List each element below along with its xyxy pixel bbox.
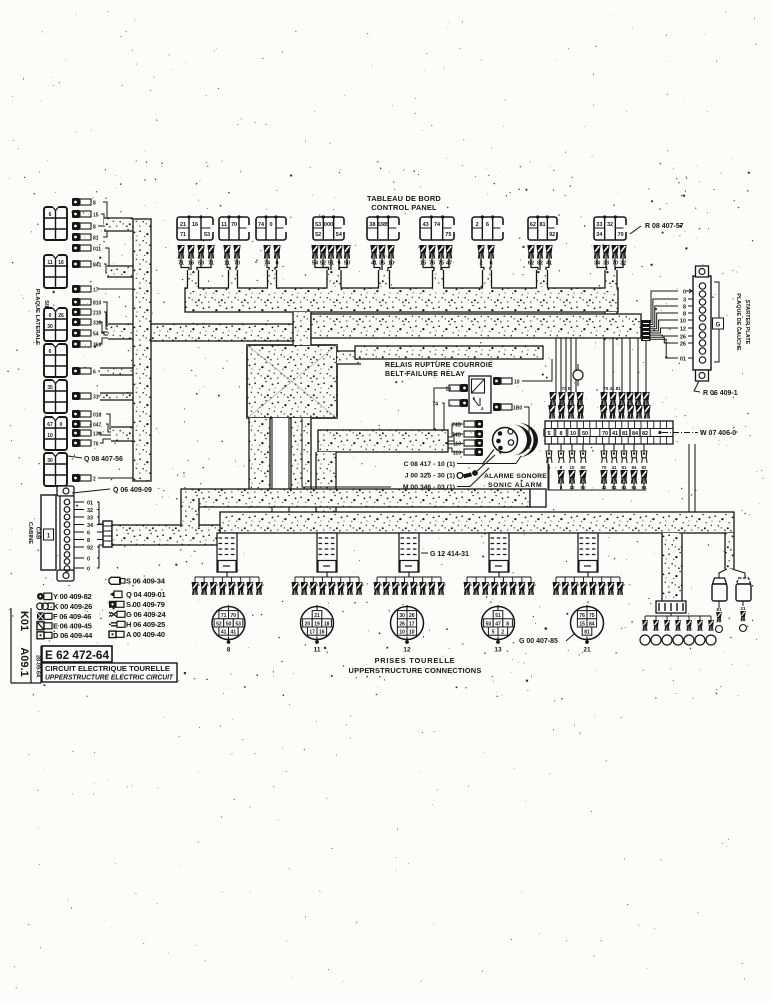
plug 018 (side plate) [72,410,102,419]
svg-text:81: 81 [716,607,722,612]
side plate connector block SB1 [44,206,67,240]
svg-text:01: 01 [680,356,686,362]
svg-text:82: 82 [642,431,648,437]
svg-text:8: 8 [93,225,96,231]
wire: plug 74 to bus F [442,403,444,430]
svg-text:PLAQUE DE GAUCHE: PLAQUE DE GAUCHE [735,293,741,351]
plug 011 (side plate) [72,244,101,253]
circular connector 12 [391,605,424,654]
svg-text:92: 92 [549,232,555,238]
wire: bus B drops to strip cluster 2 [604,338,646,392]
svg-text:3: 3 [683,297,686,303]
wire: plug 10 up to bus D [522,359,552,381]
svg-text:81: 81 [622,431,628,437]
svg-text:41: 41 [221,630,227,636]
svg-text:33: 33 [596,222,602,228]
wire: fan out of sleeve 8 [192,572,265,595]
svg-text:8: 8 [683,311,686,317]
plug 74 (relay) [432,399,468,408]
svg-text:70: 70 [601,465,607,470]
svg-text:A09.1: A09.1 [18,647,30,676]
svg-text:8: 8 [683,304,686,310]
svg-text:41: 41 [611,465,617,470]
svg-text:31: 31 [93,395,99,401]
svg-text:841: 841 [93,263,102,269]
svg-text:16: 16 [58,260,64,266]
label G 00 407-85 [519,634,574,645]
svg-text:5: 5 [547,431,550,437]
margin label K01 A09.1 [11,608,41,683]
svg-text:S 00 409-79: S 00 409-79 [126,600,165,609]
legend item E 06 409-45 [37,622,92,631]
svg-text:41: 41 [612,431,618,437]
wire: merge stub SB6 [111,427,133,441]
svg-text:26: 26 [680,341,686,347]
svg-text:81: 81 [539,222,545,228]
wire: merge stub SB2 [107,266,133,277]
svg-text:70: 70 [93,442,99,448]
svg-text:210: 210 [93,311,102,317]
wire: control panel bus A [185,288,618,312]
plug row: strip cluster 1 [548,386,584,419]
svg-text:Q 04 409-01: Q 04 409-01 [126,590,166,599]
svg-text:17: 17 [309,630,315,636]
plug 31 (side plate) [72,392,99,401]
svg-text:000: 000 [324,222,333,228]
svg-text:UPPERSTRUCTURE CONNECTIONS: UPPERSTRUCTURE CONNECTIONS [349,666,482,675]
svg-text:11: 11 [314,647,321,654]
svg-text:10: 10 [514,380,520,386]
svg-text:110: 110 [453,451,461,457]
svg-text:310: 310 [93,321,102,327]
wire: bus F alarm feed [318,430,448,452]
control panel connector group TB7 [472,215,506,273]
svg-text:92: 92 [87,546,93,552]
wire: stem of TB6 to control panel bus [433,270,444,289]
svg-text:110: 110 [453,442,461,448]
svg-text:S 06 409-34: S 06 409-34 [126,577,166,586]
svg-text:8385: 8385 [377,222,389,228]
svg-text:34: 34 [87,523,94,529]
title block E 62 472-64 [42,646,177,682]
svg-text:17: 17 [93,288,99,294]
side plate connector block SB7 [44,452,67,486]
svg-text:018: 018 [93,413,102,419]
wire: bus A drop to junction box [293,312,311,345]
svg-text:PRISES TOURELLE: PRISES TOURELLE [375,656,456,665]
wire: link bus E to cab bus [181,498,199,527]
legend item H 06 409-25 [109,620,165,629]
svg-text:W 07 406-0: W 07 406-0 [700,430,736,437]
svg-text:6: 6 [486,222,489,228]
svg-text:70: 70 [231,222,237,228]
svg-text:28-09-64: 28-09-64 [35,655,41,678]
svg-text:0: 0 [49,313,52,319]
wire: cab harness bus [112,525,232,545]
wire: SB3 plug cluster to bus C [98,302,133,344]
svg-text:34: 34 [596,232,603,238]
svg-text:50: 50 [582,431,588,437]
wire: bus C riser to junction box [151,324,294,341]
svg-text:6: 6 [49,349,52,355]
svg-text:11: 11 [47,260,53,266]
svg-text:26: 26 [58,313,64,319]
svg-text:38: 38 [369,222,375,228]
svg-text:12: 12 [680,326,686,332]
wire: bus B to starter plate [311,314,641,338]
label C 08 417-10 [404,456,521,468]
legend item Q 04 409-01 [110,590,166,599]
svg-text:10: 10 [409,630,415,636]
svg-text:R 06 409-1: R 06 409-1 [703,390,738,397]
plug B1 (bullet connector) [712,578,727,633]
svg-text:72 8: 72 8 [562,386,571,391]
wire: split to plugs B1/B2 [719,569,745,578]
svg-text:E 06 409-45: E 06 409-45 [53,622,92,631]
svg-text:CAB: CAB [35,527,41,540]
wire: riser to connector block 6 [662,533,682,601]
caption: tableau de bord / control panel [367,194,441,212]
wire: bus B drops to strip cluster 1 [556,338,576,392]
svg-text:52: 52 [315,232,321,238]
svg-text:8: 8 [93,201,96,207]
svg-text:8: 8 [87,538,90,544]
wire: riser box-2 [291,418,311,505]
wire: fan out of sleeve 12 [374,572,447,595]
wire: plug 110 to bus F region [524,407,529,449]
svg-text:D 06 409-44: D 06 409-44 [53,631,93,640]
svg-text:33: 33 [87,516,93,522]
svg-text:C 08 417 - 10 (1): C 08 417 - 10 (1) [404,461,455,468]
svg-text:74: 74 [432,402,438,408]
plug 841 (side plate) [72,260,102,269]
wire: stub plug 6 [100,368,133,375]
wire: fan out of sleeve 13 [464,572,537,595]
plug 19 (relay) [445,384,468,393]
svg-text:16: 16 [192,222,198,228]
plug row: strip cluster 2 [600,386,651,419]
wire: SB2 plug cluster to riser [98,248,133,289]
wire: stem of TB3 to control panel bus [268,270,277,289]
svg-text:STARTER PLATE: STARTER PLATE [744,300,750,345]
svg-text:K01: K01 [18,611,30,631]
svg-text:047: 047 [93,423,102,429]
svg-text:6: 6 [87,531,90,537]
svg-text:01: 01 [87,501,93,507]
circular connector 11 [301,605,334,654]
svg-text:810: 810 [93,301,102,307]
svg-text:16: 16 [319,630,325,636]
cable sleeve 11 [317,533,337,572]
wire: stem of TB9 to control panel bus [605,270,617,289]
wire: plug 2 to riser bottom [98,477,133,479]
cable sleeve 12 [399,533,419,572]
caption: alarme sonore / sonic alarm [484,473,547,489]
svg-text:74: 74 [434,222,441,228]
label R 08 407-57 [630,223,684,234]
svg-text:8: 8 [227,647,231,654]
svg-text:G 00 407-85: G 00 407-85 [519,638,558,645]
svg-text:UPPERSTRUCTURE ELECTRIC CIRCUI: UPPERSTRUCTURE ELECTRIC CIRCUIT [45,673,174,682]
svg-text:011: 011 [93,247,101,253]
wire: SB1 plug cluster to riser [98,202,133,237]
svg-text:70 41 81: 70 41 81 [603,386,621,391]
wire: cab connector pin fan [74,501,103,573]
connector block 6 [656,601,686,613]
svg-text:32: 32 [87,508,93,514]
side plate connector block SB5 [44,379,67,413]
wire: merge stub SB1 [104,218,133,231]
wire: stem of TB4 to control panel bus [327,270,341,289]
svg-text:43: 43 [423,222,429,228]
svg-text:2: 2 [93,477,96,483]
plug 310 (side plate) [72,318,102,327]
caption: relais rupture courroie / belt failure relay [385,362,493,378]
svg-text:H 06 409-25: H 06 409-25 [126,620,165,629]
circular connector 8 [212,605,245,654]
label G 12 414-31 [421,551,469,558]
label Q 06 409-09 [72,487,152,494]
plug 74B (alarm feed) [452,420,483,429]
side plate connector block SB4 [44,343,67,377]
caption: prises tourelle / upperstructure connections [349,656,482,675]
side plate connector block SB3 [44,307,67,341]
plug 130 (side plate) [72,429,102,438]
plug row under strip W (row 1) [546,444,647,470]
wire: bus F to alarm plugs [448,424,463,452]
svg-text:0: 0 [60,422,63,428]
wire: bus D step from junction box [337,351,361,364]
svg-text:53: 53 [315,222,321,228]
plug 047 (side plate) [72,420,102,429]
svg-text:74: 74 [258,222,265,228]
wire: stem of TB5 to control panel bus [379,270,390,289]
wire: bus D relay feed [355,346,543,359]
wire: stub plug 31 [100,393,133,400]
svg-text:62: 62 [530,222,536,228]
circular connector 21 [571,605,604,654]
side plate connector block SB6 [44,416,67,450]
plug 110 (relay) [493,403,522,412]
side plate connector block SB2 [44,254,67,288]
control panel connector group TB2 [219,215,252,273]
svg-text:67: 67 [47,422,53,428]
label R 06 409-1 [694,381,738,397]
wire: right tail of main bus [725,533,734,569]
caption: cabine / cab [27,522,41,544]
terminal strip W numbers [544,429,650,438]
svg-text:360: 360 [93,343,102,349]
legend item S 06 409-34 [109,577,166,586]
control panel connector group TB3 [256,215,289,273]
wire: strip W right drops to main bus [689,444,695,512]
svg-text:5: 5 [492,630,495,636]
svg-text:10: 10 [570,431,576,437]
plug 360 (side plate) [72,340,102,349]
wire: riser box-1 [249,418,270,508]
svg-text:10: 10 [399,630,405,636]
svg-text:41: 41 [231,630,237,636]
svg-text:50: 50 [580,465,586,470]
svg-text:K 00 409-26: K 00 409-26 [53,602,92,611]
svg-text:SONIC ALARM: SONIC ALARM [488,482,542,489]
svg-text:Y 00 409-82: Y 00 409-82 [53,592,92,601]
svg-text:G 06 409-24: G 06 409-24 [126,610,167,619]
svg-text:84: 84 [631,465,637,470]
svg-text:74B: 74B [452,433,462,439]
legend item A 00 409-40 [109,630,165,639]
svg-text:15: 15 [93,213,99,219]
wire: plug 6 to riser [98,370,133,372]
svg-text:PLAQUE LATERALE: PLAQUE LATERALE [34,289,40,345]
svg-text:26: 26 [680,334,686,340]
svg-text:21: 21 [583,647,591,654]
svg-text:2: 2 [476,222,479,228]
plug 210 (side plate) [72,308,102,317]
svg-text:130: 130 [93,432,102,438]
svg-text:ALARME SONORE: ALARME SONORE [484,473,547,480]
svg-text:53: 53 [204,232,210,238]
caption: starter plate (rotated) [735,293,750,351]
wire: stem of TB1 to control panel bus [188,270,199,289]
wire: bus B block fan to starter plate pins [650,289,693,362]
svg-text:82: 82 [641,465,647,470]
wire: fan out of sleeve 21 [553,572,626,595]
junction box (harness node) [247,345,337,418]
svg-text:6: 6 [49,212,52,218]
svg-text:RELAIS RUPTURE COURROIE: RELAIS RUPTURE COURROIE [385,362,493,369]
wire: plug 19 to bus F [434,388,449,430]
plug 2 (side plate) [72,474,96,483]
cable sleeve 13 [489,533,509,572]
wire: stem openings into bus A [188,287,616,292]
svg-text:1B0: 1B0 [513,406,522,412]
svg-text:0: 0 [87,557,90,563]
plug 110 (alarm feed) [453,439,483,448]
control panel connector group TB6 [419,215,456,273]
wire: SB6 plug cluster to riser [98,414,133,443]
relay K1 belt failure [469,376,491,413]
plug 17 (side plate) [72,285,99,294]
wire: side plate riser bus [133,219,151,481]
svg-text:10: 10 [47,433,53,439]
wire: riser box-3 [316,452,336,512]
wire: merge stub SB3 [108,324,133,339]
svg-text:32: 32 [607,222,613,228]
plug 74B (alarm feed) [452,430,483,439]
svg-text:G: G [716,323,721,329]
wire: stem of TB8 to control panel bus [537,270,548,289]
plug 54 (side plate) [72,329,99,338]
terminal strip W 07 406-0 [545,421,673,444]
svg-text:54: 54 [336,232,343,238]
svg-text:19: 19 [445,387,451,393]
wire: fan out of block 6 [645,613,711,620]
svg-text:6: 6 [93,370,96,376]
sonic alarm H1 [482,423,538,465]
svg-text:0: 0 [269,222,272,228]
plug 810 (side plate) [72,298,102,307]
svg-text:Q 06 409-09: Q 06 409-09 [113,487,152,494]
svg-text:81: 81 [621,465,627,470]
svg-text:CABINE: CABINE [27,522,33,544]
plug 70 (side plate) [72,439,99,448]
cab connector Q 06 409-09 [41,486,74,581]
svg-text:11: 11 [221,222,227,228]
label J 00 325-30 with plug [405,455,495,480]
legend item D 06 409-44 [37,631,93,640]
svg-text:71: 71 [180,232,186,238]
plug 8 (side plate) [72,222,96,231]
svg-text:2: 2 [501,630,504,636]
control panel connector group TB8 [527,215,559,273]
svg-text:10: 10 [569,465,575,470]
svg-text:CONTROL PANEL: CONTROL PANEL [371,203,437,212]
terminal circles of block 6 [640,620,716,645]
plug B2 (bullet connector) [736,578,751,632]
wire: gather line under strip W to alarm bus [548,458,646,490]
connector at alarm bus right end [530,489,546,507]
connector block at bus B end [641,320,651,341]
plug 110 (alarm feed) [453,448,483,457]
plug 81 (side plate) [72,233,99,242]
svg-text:30: 30 [47,324,53,330]
svg-text:0: 0 [87,567,90,573]
svg-text:54: 54 [93,332,99,338]
svg-text:0: 0 [683,289,686,295]
control panel connector group TB9 [593,215,628,273]
svg-text:81: 81 [93,236,99,242]
svg-text:84: 84 [632,431,639,437]
connector block at cab bus end [103,521,112,547]
svg-text:Q 08 407-56: Q 08 407-56 [84,456,123,463]
svg-text:70: 70 [602,431,608,437]
svg-text:30: 30 [47,458,53,464]
svg-text:13: 13 [494,647,502,654]
svg-text:21: 21 [180,222,186,228]
plug 15 (side plate) [72,210,99,219]
legend item K 00 409-26 [37,602,92,611]
svg-text:A 00 409-40: A 00 409-40 [126,630,165,639]
legend item G 06 409-24 [109,610,167,619]
caption: plaque laterale / side plate [34,289,49,345]
svg-text:12: 12 [403,647,411,654]
svg-text:TABLEAU DE BORD: TABLEAU DE BORD [367,194,441,203]
svg-text:35: 35 [47,385,53,391]
svg-text:G 12 414-31: G 12 414-31 [430,551,469,558]
legend item F 06 409-46 [37,612,91,621]
svg-text:75: 75 [445,232,451,238]
wire: main bottom bus [220,512,734,533]
plug 8 (side plate) [72,198,96,207]
wire: sonic alarm bus E [181,489,530,507]
legend item S 00 409-79 [109,600,165,609]
wire: white channel under junction box [272,418,289,519]
label Q 08 407-56 [68,456,123,463]
label M 00 346-03 [302,418,489,491]
svg-text:74B: 74B [452,423,462,429]
svg-text:E 62 472-64: E 62 472-64 [45,648,109,662]
indicator lamp (strip cluster 1) [573,364,583,386]
svg-text:21: 21 [740,606,746,611]
svg-text:81: 81 [584,630,590,636]
cable sleeve 21 [578,533,598,572]
svg-text:10: 10 [680,318,686,324]
plug 10 (relay) [493,377,520,386]
svg-text:R 08 407-57: R 08 407-57 [645,223,684,230]
cable sleeve 8 [217,533,237,572]
wire: stem of TB7 to control panel bus [483,270,492,289]
